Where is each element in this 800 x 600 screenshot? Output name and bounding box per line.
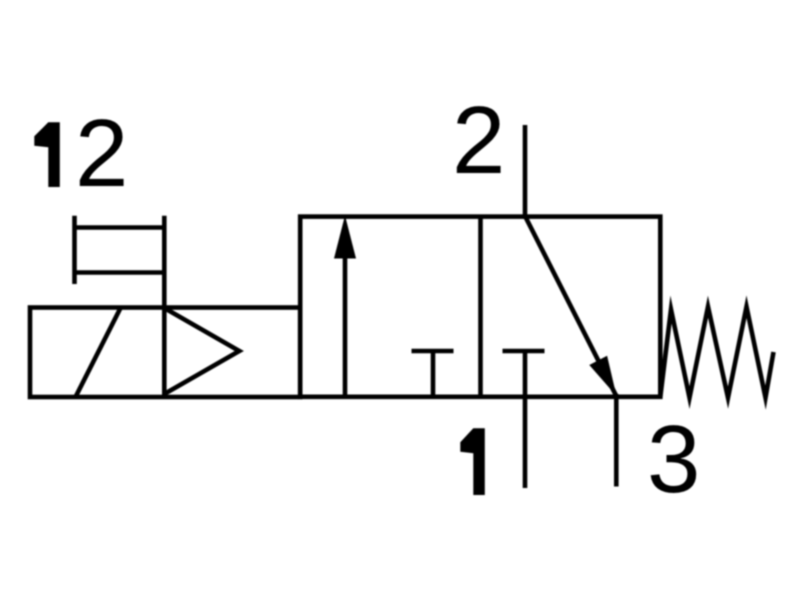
svg-text:3: 3 [647, 406, 700, 513]
svg-text:2: 2 [75, 100, 128, 207]
svg-text:2: 2 [452, 87, 505, 194]
